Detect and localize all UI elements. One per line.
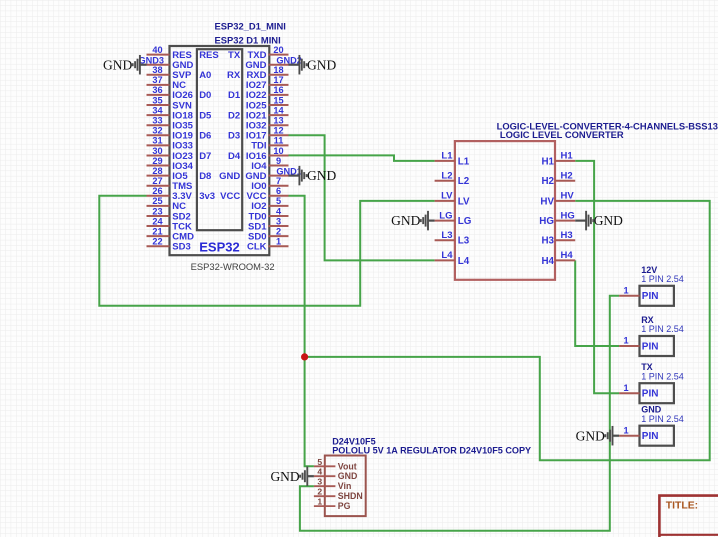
svg-text:LV: LV: [458, 196, 470, 207]
ESP32 left pin 31 IO33: [147, 136, 193, 152]
ESP32 right pin 16 IO22: [246, 85, 289, 101]
ESP32 inner pin labels 3v3/VCC: [199, 191, 240, 202]
svg-text:15: 15: [273, 95, 283, 105]
wire LLC H4 to RX header: [575, 260, 619, 346]
junction VCC node: [301, 353, 308, 360]
ESP32 right pin GND2 GND: [245, 56, 302, 72]
wire IO17 to LLC L4: [289, 135, 435, 260]
svg-text:GND: GND: [338, 471, 358, 481]
svg-text:POLOLU 5V 1A REGULATOR D24V10F: POLOLU 5V 1A REGULATOR D24V10F5 COPY: [332, 445, 531, 455]
svg-text:PG: PG: [338, 501, 351, 511]
svg-text:A0: A0: [199, 70, 211, 81]
svg-text:PIN: PIN: [642, 431, 659, 442]
svg-text:17: 17: [273, 75, 283, 85]
LLC left pin L3: [435, 230, 470, 247]
wire 3V3 net: ESP32 3.3V to LLC LV: [99, 196, 434, 306]
svg-text:L1: L1: [458, 156, 470, 167]
svg-text:21: 21: [152, 226, 162, 236]
svg-text:1 PIN 2.54: 1 PIN 2.54: [641, 414, 684, 424]
ESP32 inner pin labels D7/D4: [199, 151, 241, 162]
ESP32 left pin 27 TMS: [147, 176, 193, 192]
svg-text:GND: GND: [307, 57, 336, 72]
svg-text:16: 16: [273, 85, 283, 95]
svg-text:LG: LG: [458, 216, 472, 227]
wire VCC branch to LLC HV: [305, 201, 710, 460]
LLC right pin HV: [540, 191, 575, 208]
svg-text:LG: LG: [439, 210, 452, 221]
ESP32 inner pin labels A0/RX: [199, 70, 241, 81]
svg-text:38: 38: [152, 65, 162, 75]
ESP32 inner pin labels D5/D2: [199, 110, 240, 121]
ESP32 right pin 11 TDI: [251, 136, 288, 152]
svg-text:H3: H3: [541, 236, 554, 247]
svg-text:35: 35: [152, 95, 162, 105]
svg-text:13: 13: [273, 116, 283, 126]
regulator pin 2 SHDN: [314, 487, 363, 502]
svg-text:PIN: PIN: [642, 389, 659, 400]
ground GND1 at ESP32: [289, 166, 337, 186]
svg-text:34: 34: [152, 105, 163, 115]
svg-text:H4: H4: [541, 256, 554, 267]
svg-text:HV: HV: [540, 196, 554, 207]
ESP32 right pin 1 CLK: [247, 237, 289, 253]
IC U2 logic level converter body: [455, 121, 718, 280]
svg-text:11: 11: [274, 136, 284, 146]
svg-text:1 PIN 2.54: 1 PIN 2.54: [641, 274, 684, 284]
svg-text:L2: L2: [458, 176, 470, 187]
LLC left pin LG: [435, 210, 472, 227]
ESP32 right pin 13 IO32: [246, 116, 289, 132]
svg-text:GND: GND: [270, 469, 299, 484]
ESP32 right pin 2 SD0: [248, 226, 288, 242]
connector TX 1-pin header: [619, 362, 684, 403]
regulator pin 1 PG: [314, 497, 351, 512]
ESP32 right pin 20 TXD: [248, 45, 289, 61]
svg-text:TITLE:: TITLE:: [666, 501, 698, 512]
ESP32 right pin 15 IO25: [246, 95, 289, 111]
svg-text:CLK: CLK: [247, 242, 267, 253]
regulator pin 3 Vin: [314, 477, 351, 492]
svg-text:GND: GND: [594, 213, 623, 228]
ground at GND header: [576, 426, 619, 446]
svg-text:1: 1: [623, 286, 628, 296]
svg-text:1: 1: [623, 383, 628, 393]
svg-text:VCC: VCC: [220, 191, 240, 202]
svg-text:10: 10: [273, 146, 283, 156]
ESP32 right pin 4 TD0: [249, 206, 289, 222]
svg-text:22: 22: [152, 237, 162, 247]
wire VCC to regulator Vout: [289, 196, 314, 467]
svg-text:D8: D8: [199, 171, 211, 182]
title block: [659, 496, 718, 537]
svg-text:28: 28: [152, 166, 162, 176]
LLC left pin L4: [435, 250, 470, 267]
ESP32 inner pin labels D8/GND: [199, 171, 240, 182]
svg-text:SD3: SD3: [172, 242, 190, 253]
ESP32 left pin 35 SVN: [147, 95, 192, 111]
ESP32 left pin 25 NC: [147, 196, 187, 212]
ESP32 left pin 22 SD3: [147, 237, 191, 253]
svg-text:GND: GND: [576, 428, 605, 443]
ESP32 right pin 7 IO0: [251, 176, 288, 192]
svg-text:RES: RES: [199, 50, 219, 61]
svg-text:ESP32 D1 MINI: ESP32 D1 MINI: [215, 35, 281, 46]
svg-text:2: 2: [317, 487, 322, 497]
svg-text:LOGIC LEVEL CONVERTER: LOGIC LEVEL CONVERTER: [500, 129, 624, 140]
svg-text:18: 18: [273, 65, 283, 75]
svg-text:Vout: Vout: [338, 461, 357, 471]
svg-text:2: 2: [276, 226, 281, 236]
svg-text:L4: L4: [458, 256, 470, 267]
svg-text:36: 36: [152, 85, 162, 95]
ground at LLC HG: [575, 211, 623, 231]
svg-text:D4: D4: [228, 151, 241, 162]
wire 12V header to regulator Vin: [300, 296, 619, 531]
ground at LLC LG: [391, 211, 434, 231]
svg-text:HG: HG: [539, 216, 554, 227]
svg-text:RX: RX: [227, 70, 241, 81]
svg-text:4: 4: [276, 206, 282, 216]
svg-text:1: 1: [623, 425, 628, 435]
ESP32 right pin 18 RXD: [246, 65, 288, 81]
LLC left pin LV: [435, 191, 470, 208]
IC U1 ESP32_D1_MINI module body: [170, 21, 286, 272]
svg-text:SHDN: SHDN: [338, 491, 363, 501]
svg-text:GND: GND: [307, 168, 336, 183]
svg-text:H1: H1: [561, 151, 574, 162]
ESP32 left pin 26 3.3V: [147, 186, 193, 202]
svg-text:PIN: PIN: [642, 291, 659, 302]
ESP32 right pin 12 IO17: [246, 126, 289, 142]
ESP32 right pin 10 IO16: [246, 146, 289, 162]
ESP32 left pin 34 IO18: [147, 105, 193, 121]
ESP32 left pin 29 IO34: [147, 156, 194, 172]
ESP32 right pin 14 IO21: [246, 105, 289, 121]
connector 12V 1-pin header: [619, 265, 684, 306]
wire LLC H1 to TX header: [575, 161, 619, 393]
svg-text:Vin: Vin: [338, 481, 352, 491]
svg-text:D2: D2: [228, 110, 240, 121]
svg-text:27: 27: [152, 176, 162, 186]
svg-text:ESP32_D1_MINI: ESP32_D1_MINI: [215, 21, 286, 32]
svg-text:D5: D5: [199, 110, 212, 121]
ESP32 left pin 28 IO5: [147, 166, 189, 182]
svg-text:4: 4: [317, 467, 322, 477]
regulator U3 D24V10F5: [325, 437, 531, 516]
LLC left pin L2: [435, 171, 470, 188]
ESP32 inner pin labels D0/D1: [199, 90, 241, 101]
svg-text:D7: D7: [199, 151, 211, 162]
LLC right pin H1: [541, 151, 575, 168]
ESP32 right pin 5 IO2: [251, 196, 288, 212]
ESP32 left pin 30 IO23: [147, 146, 193, 162]
svg-text:6: 6: [276, 186, 281, 196]
ground GND3 at ESP32: [103, 55, 146, 74]
svg-text:25: 25: [152, 196, 162, 206]
svg-text:1: 1: [623, 336, 628, 346]
svg-text:GND: GND: [391, 213, 420, 228]
ground GND2 at ESP32: [289, 55, 337, 74]
ESP32 left pin GND3 GND: [138, 56, 193, 72]
svg-text:20: 20: [273, 45, 283, 55]
ESP32 left pin 21 CMD: [147, 226, 195, 242]
ESP32 left pin 40 RES: [147, 45, 192, 61]
svg-text:9: 9: [276, 156, 281, 166]
svg-text:L4: L4: [441, 250, 453, 261]
svg-text:H2: H2: [561, 171, 573, 182]
ESP32 left pin 37 NC: [147, 75, 187, 91]
svg-text:29: 29: [152, 156, 162, 166]
LLC left pin L1: [435, 151, 470, 168]
svg-text:14: 14: [273, 105, 284, 115]
svg-text:L1: L1: [441, 151, 453, 162]
svg-text:H2: H2: [541, 176, 554, 187]
svg-text:33: 33: [152, 116, 162, 126]
svg-text:12: 12: [273, 126, 283, 136]
ESP32 left pin 38 SVP: [147, 65, 192, 81]
svg-text:ESP32: ESP32: [199, 240, 239, 255]
svg-text:3v3: 3v3: [199, 191, 215, 202]
ESP32 right pin 6 VCC: [246, 186, 288, 202]
svg-text:5: 5: [276, 196, 281, 206]
svg-text:23: 23: [152, 206, 162, 216]
svg-text:H3: H3: [561, 230, 573, 241]
svg-text:H1: H1: [541, 156, 554, 167]
svg-text:7: 7: [276, 176, 281, 186]
svg-text:L3: L3: [458, 236, 470, 247]
svg-text:GND: GND: [219, 171, 240, 182]
svg-text:1 PIN 2.54: 1 PIN 2.54: [641, 371, 684, 381]
svg-text:HV: HV: [561, 191, 575, 202]
ESP32 left pin 33 IO35: [147, 116, 194, 132]
ESP32 inner pin labels RES/TX: [199, 50, 241, 61]
svg-text:1: 1: [317, 497, 322, 507]
svg-text:D6: D6: [199, 131, 211, 142]
svg-text:32: 32: [152, 126, 162, 136]
svg-text:D1: D1: [228, 90, 241, 101]
svg-text:H4: H4: [561, 250, 574, 261]
svg-text:HG: HG: [561, 210, 575, 221]
svg-text:26: 26: [152, 186, 162, 196]
svg-text:24: 24: [152, 216, 163, 226]
svg-text:37: 37: [152, 75, 162, 85]
svg-text:LV: LV: [441, 191, 453, 202]
LLC right pin H4: [541, 250, 575, 267]
svg-text:1 PIN 2.54: 1 PIN 2.54: [641, 324, 684, 334]
svg-text:GND: GND: [103, 57, 132, 72]
ESP32 right pin GND1 GND: [245, 166, 302, 182]
regulator pin 5 Vout: [314, 457, 357, 472]
svg-text:30: 30: [152, 146, 162, 156]
ESP32 left pin 32 IO19: [147, 126, 193, 142]
ESP32 right pin 17 IO27: [246, 75, 289, 91]
LLC right pin HG: [539, 210, 575, 227]
svg-text:PIN: PIN: [642, 341, 659, 352]
regulator pin 4 GND: [314, 467, 357, 482]
svg-text:3: 3: [276, 216, 281, 226]
svg-text:D3: D3: [228, 131, 240, 142]
ESP32 left pin 36 IO26: [147, 85, 193, 101]
svg-text:1: 1: [276, 237, 281, 247]
ESP32 left pin 23 SD2: [147, 206, 191, 222]
connector RX 1-pin header: [619, 315, 684, 356]
LLC right pin H2: [541, 171, 575, 188]
svg-text:L3: L3: [441, 230, 452, 241]
svg-text:TX: TX: [228, 50, 241, 61]
connector GND 1-pin header: [619, 405, 684, 446]
svg-text:5: 5: [317, 457, 322, 467]
ground at regulator: [270, 466, 313, 486]
LLC right pin H3: [541, 230, 575, 247]
ESP32 right pin 3 SD1: [248, 216, 288, 232]
svg-text:3: 3: [317, 477, 322, 487]
ESP32 left pin 24 TCK: [147, 216, 192, 232]
ESP32 right pin 9 IO4: [251, 156, 288, 172]
svg-text:L2: L2: [441, 171, 452, 182]
svg-text:31: 31: [152, 136, 162, 146]
ESP32 inner pin labels D6/D3: [199, 131, 240, 142]
svg-text:D0: D0: [199, 90, 211, 101]
svg-text:40: 40: [152, 45, 162, 55]
svg-text:ESP32-WROOM-32: ESP32-WROOM-32: [191, 261, 275, 272]
wire IO16 to LLC L1: [289, 155, 435, 161]
